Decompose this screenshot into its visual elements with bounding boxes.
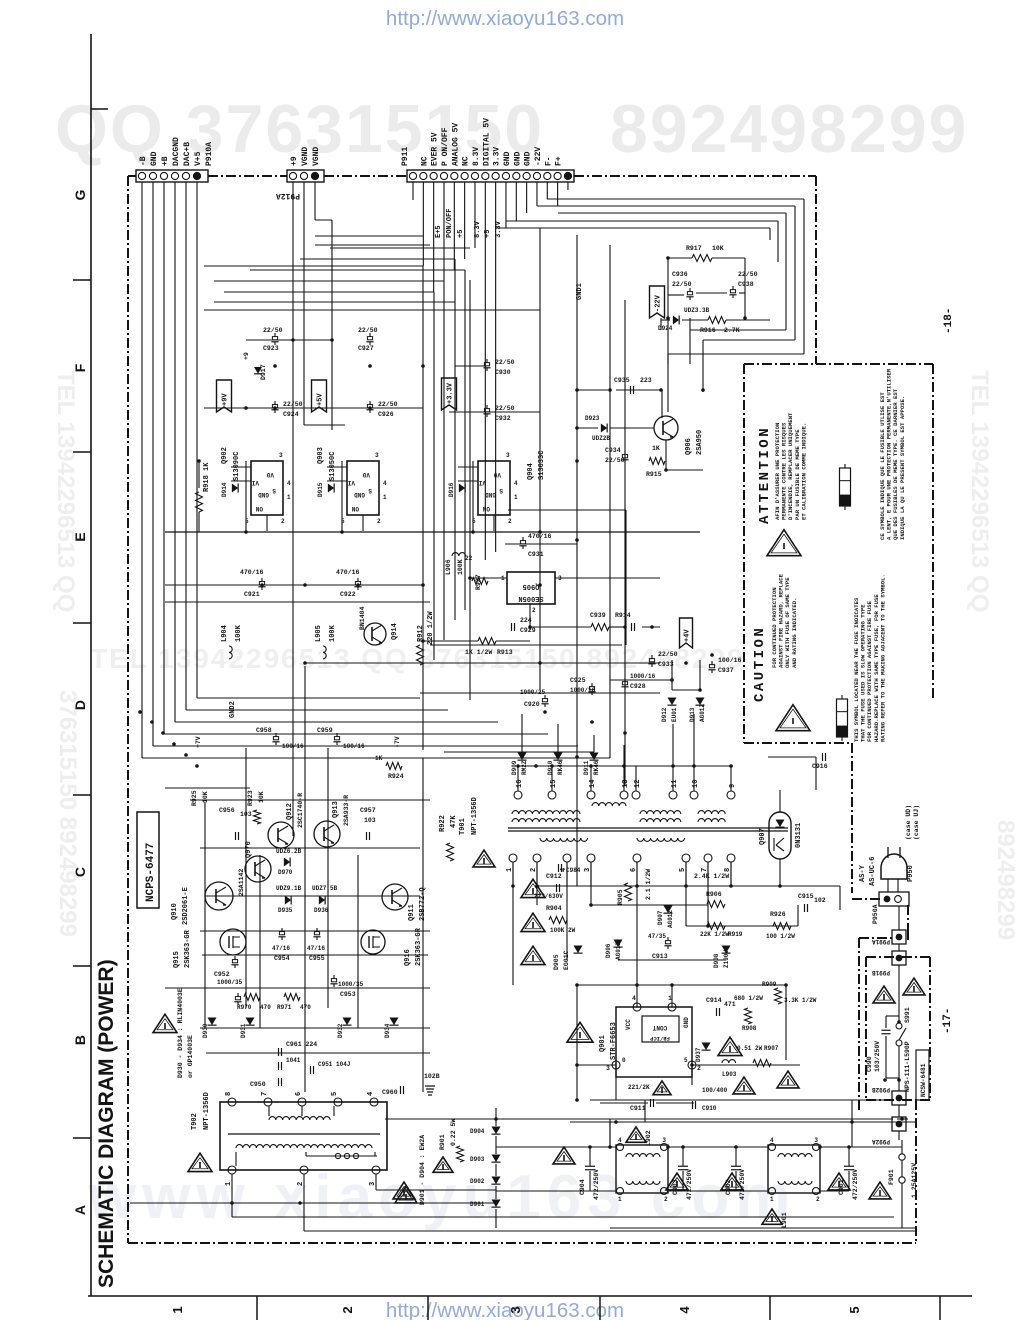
svg-text:NPT-1356D: NPT-1356D xyxy=(471,797,479,835)
svg-text:+9: +9 xyxy=(243,352,250,360)
svg-text:3: 3 xyxy=(279,452,283,459)
svg-text:V+5: V+5 xyxy=(194,151,203,166)
svg-text:C932: C932 xyxy=(495,415,511,422)
svg-text:100K: 100K xyxy=(457,559,464,575)
svg-text:G: G xyxy=(72,189,88,200)
svg-text:+5V: +5V xyxy=(317,393,325,406)
svg-text:22/50: 22/50 xyxy=(495,359,515,366)
svg-text:2: 2 xyxy=(281,518,285,525)
svg-text:470: 470 xyxy=(260,1004,271,1011)
svg-text:AND RATING INDICATED.: AND RATING INDICATED. xyxy=(791,598,798,669)
svg-text:100K: 100K xyxy=(235,624,243,642)
svg-text:+7V: +7V xyxy=(195,736,202,748)
svg-text:D912: D912 xyxy=(661,707,668,722)
svg-text:STR-F6653: STR-F6653 xyxy=(610,1022,618,1060)
svg-text:100/16: 100/16 xyxy=(718,657,742,664)
svg-text:VGND: VGND xyxy=(301,147,310,166)
svg-text:CAUTION: CAUTION xyxy=(752,626,768,702)
svg-text:10K: 10K xyxy=(712,245,724,252)
svg-text:S13090C: S13090C xyxy=(233,452,241,481)
svg-text:P950: P950 xyxy=(907,865,915,882)
svg-text:+B: +B xyxy=(161,156,170,166)
svg-text:22/50: 22/50 xyxy=(283,401,303,408)
svg-text:C933: C933 xyxy=(658,661,674,668)
svg-text:16: 16 xyxy=(516,780,524,788)
svg-text:Q905: Q905 xyxy=(523,582,540,590)
svg-text:4: 4 xyxy=(677,1306,692,1314)
svg-text:47/35: 47/35 xyxy=(648,933,666,940)
svg-text:3: 3 xyxy=(506,452,510,459)
svg-text:C930: C930 xyxy=(495,369,511,376)
svg-text:C911: C911 xyxy=(630,1105,646,1112)
svg-text:C934: C934 xyxy=(605,447,621,454)
svg-text:D: D xyxy=(72,700,88,710)
svg-text:R916: R916 xyxy=(700,327,716,334)
svg-text:C954: C954 xyxy=(274,955,290,962)
svg-text:UDZ7.5B: UDZ7.5B xyxy=(312,885,338,892)
svg-text:D916: D916 xyxy=(448,482,455,497)
svg-text:GND: GND xyxy=(485,491,496,498)
svg-text:C921: C921 xyxy=(244,591,260,598)
svg-text:4: 4 xyxy=(618,1137,622,1144)
svg-text:D970: D970 xyxy=(278,869,293,876)
svg-text:Q914: Q914 xyxy=(391,623,399,640)
svg-text:D910: D910 xyxy=(547,760,554,775)
svg-text:C936: C936 xyxy=(672,271,688,278)
svg-text:2SC1740-R: 2SC1740-R xyxy=(297,793,304,828)
svg-text:0.22 5W: 0.22 5W xyxy=(450,1119,457,1146)
svg-text:R908: R908 xyxy=(742,1025,757,1032)
svg-text:Q902: Q902 xyxy=(221,447,229,464)
svg-text:C990: C990 xyxy=(866,1056,873,1072)
svg-text:1000/35: 1000/35 xyxy=(217,979,243,986)
svg-text:-22V: -22V xyxy=(655,294,663,312)
svg-text:(case UD): (case UD) xyxy=(905,805,912,840)
svg-text:B: B xyxy=(72,1035,88,1045)
svg-text:C923: C923 xyxy=(263,345,279,352)
svg-text:+4V: +4V xyxy=(684,629,692,642)
svg-text:472/250V: 472/250V xyxy=(686,1169,693,1200)
svg-text:D923: D923 xyxy=(585,415,600,422)
svg-text:100K 2W: 100K 2W xyxy=(550,927,576,934)
svg-text:Q903: Q903 xyxy=(317,447,325,464)
svg-text:P ON/OFF: P ON/OFF xyxy=(441,127,450,166)
svg-text:47K: 47K xyxy=(450,815,458,828)
svg-text:S13050C: S13050C xyxy=(329,452,337,481)
svg-text:P910A: P910A xyxy=(205,142,214,166)
svg-text:P950A: P950A xyxy=(872,904,879,924)
svg-text:472/250V: 472/250V xyxy=(593,1169,600,1200)
svg-text:C952: C952 xyxy=(214,971,230,978)
svg-text:F+: F+ xyxy=(555,156,564,166)
svg-text:471: 471 xyxy=(724,1001,736,1008)
svg-text:NC: NC xyxy=(420,156,429,166)
svg-text:1: 1 xyxy=(514,494,518,501)
svg-text:T902: T902 xyxy=(191,1113,199,1130)
svg-text:3.3K 1/2W: 3.3K 1/2W xyxy=(784,997,817,1004)
svg-text:EU01: EU01 xyxy=(671,707,678,722)
svg-text:+5: +5 xyxy=(457,230,465,238)
svg-text:22/50: 22/50 xyxy=(605,457,625,464)
svg-text:C915: C915 xyxy=(798,893,814,900)
svg-text:CONT: CONT xyxy=(652,1024,667,1031)
svg-text:Z100V: Z100V xyxy=(723,950,730,968)
svg-text:3: 3 xyxy=(814,1137,818,1144)
svg-text:C922: C922 xyxy=(340,591,356,598)
svg-text:S13033C: S13033C xyxy=(538,451,546,480)
svg-text:D909: D909 xyxy=(511,760,518,775)
svg-text:12: 12 xyxy=(634,780,642,788)
svg-text:R919: R919 xyxy=(728,931,743,938)
svg-text:GND: GND xyxy=(513,151,522,166)
svg-text:C939: C939 xyxy=(590,612,606,619)
svg-text:22K 1/2W: 22K 1/2W xyxy=(700,931,729,938)
svg-text:C956: C956 xyxy=(219,807,235,814)
svg-text:223: 223 xyxy=(640,377,652,384)
svg-text:R922: R922 xyxy=(439,815,447,832)
svg-text:P911: P911 xyxy=(401,147,410,166)
svg-text:RM2Z: RM2Z xyxy=(521,760,528,775)
svg-text:1000/16: 1000/16 xyxy=(570,687,596,694)
svg-text:C927: C927 xyxy=(358,345,374,352)
svg-text:5: 5 xyxy=(331,1092,339,1096)
svg-text:D931: D931 xyxy=(240,1023,247,1038)
svg-text:C912: C912 xyxy=(546,873,562,880)
svg-text:RATING REFER TO THE MAKING ADJ: RATING REFER TO THE MAKING ADJACENT TO T… xyxy=(879,574,886,742)
svg-text:D901 - D904 : EW2A: D901 - D904 : EW2A xyxy=(419,1135,426,1205)
svg-text:D906: D906 xyxy=(605,943,612,958)
svg-text:C935: C935 xyxy=(614,377,630,384)
svg-text:Q910: Q910 xyxy=(171,903,179,920)
svg-text:ON: ON xyxy=(351,505,359,512)
svg-text:SCHEMATIC DIAGRAM (POWER): SCHEMATIC DIAGRAM (POWER) xyxy=(95,959,118,1288)
svg-text:22/50: 22/50 xyxy=(672,281,692,288)
svg-text:4: 4 xyxy=(383,480,387,487)
svg-text:QQ 376315150: QQ 376315150 xyxy=(55,91,544,167)
svg-text:P991A: P991A xyxy=(872,938,890,945)
svg-text:2SA1142: 2SA1142 xyxy=(238,869,245,896)
svg-text:ON: ON xyxy=(255,505,263,512)
svg-text:0.51 2W: 0.51 2W xyxy=(737,1045,763,1052)
svg-text:103/250V: 103/250V xyxy=(874,1041,881,1072)
svg-text:2.1 1/2W: 2.1 1/2W xyxy=(645,869,652,900)
svg-text:http://www.xiaoyu163.com: http://www.xiaoyu163.com xyxy=(386,7,624,30)
svg-text:Q901: Q901 xyxy=(599,1035,607,1052)
svg-text:2SD2061-E: 2SD2061-E xyxy=(182,887,190,925)
svg-text:2SK363-GR: 2SK363-GR xyxy=(415,927,423,966)
svg-text:F901: F901 xyxy=(888,1169,895,1185)
svg-text:1041: 1041 xyxy=(286,1057,301,1064)
svg-text:4: 4 xyxy=(770,1137,774,1144)
svg-text:11: 11 xyxy=(671,780,679,788)
svg-text:ATTENTION: ATTENTION xyxy=(757,426,773,524)
svg-text:C959: C959 xyxy=(317,727,333,734)
svg-text:+3.3V: +3.3V xyxy=(447,382,455,404)
svg-text:2: 2 xyxy=(816,1196,820,1203)
svg-text:376315150 892498299: 376315150 892498299 xyxy=(54,690,81,937)
svg-text:47/16: 47/16 xyxy=(272,945,290,952)
svg-text:NCSW-6481: NCSW-6481 xyxy=(920,1063,927,1097)
svg-text:47/16: 47/16 xyxy=(307,945,325,952)
svg-text:8: 8 xyxy=(225,1092,233,1096)
svg-text:1: 1 xyxy=(668,995,672,1002)
svg-text:R915: R915 xyxy=(646,471,662,478)
svg-text:TEL 13942296513 QQ: TEL 13942296513 QQ xyxy=(966,370,993,612)
svg-text:UDZ6.2B: UDZ6.2B xyxy=(276,848,302,855)
svg-text:P912A: P912A xyxy=(276,191,300,200)
svg-text:VGND: VGND xyxy=(312,147,321,166)
svg-text:R917: R917 xyxy=(686,245,702,252)
svg-text:Q916: Q916 xyxy=(404,949,412,966)
svg-text:1: 1 xyxy=(383,494,387,501)
svg-text:UDZ3.3B: UDZ3.3B xyxy=(684,307,710,314)
svg-text:GND2: GND2 xyxy=(229,701,237,718)
svg-text:4: 4 xyxy=(514,480,518,487)
svg-text:1K: 1K xyxy=(652,445,660,452)
svg-text:R907: R907 xyxy=(764,1045,779,1052)
svg-text:D904: D904 xyxy=(470,1128,485,1135)
svg-text:R925: R925 xyxy=(191,790,198,806)
svg-text:C904: C904 xyxy=(579,1179,586,1195)
svg-text:C916: C916 xyxy=(812,763,828,770)
svg-text:-22V: -22V xyxy=(534,147,543,166)
svg-text:D917: D917 xyxy=(260,364,267,380)
svg-text:1: 1 xyxy=(170,1306,185,1313)
svg-text:VI: VI xyxy=(251,479,259,486)
svg-text:2.7K: 2.7K xyxy=(724,327,740,334)
svg-text:100/16: 100/16 xyxy=(282,743,304,750)
svg-text:L905: L905 xyxy=(315,625,323,642)
svg-text:1: 1 xyxy=(618,1196,622,1203)
svg-text:1000/35: 1000/35 xyxy=(338,981,364,988)
svg-text:AS-Y: AS-Y xyxy=(859,864,867,882)
svg-text:EVER 5V: EVER 5V xyxy=(431,132,440,166)
svg-text:V0: V0 xyxy=(493,471,501,478)
svg-text:R914: R914 xyxy=(615,612,631,619)
svg-text:Q911: Q911 xyxy=(408,904,416,921)
svg-text:E: E xyxy=(72,532,88,541)
svg-text:D935: D935 xyxy=(278,907,293,914)
svg-text:FB/ICP: FB/ICP xyxy=(649,1035,670,1042)
svg-text:2SK363-GR: 2SK363-GR xyxy=(184,929,192,968)
svg-text:0: 0 xyxy=(622,1057,626,1064)
svg-text:C961 224: C961 224 xyxy=(286,1041,317,1048)
svg-text:Q915: Q915 xyxy=(173,951,181,968)
svg-text:GND: GND xyxy=(150,151,159,166)
svg-text:103: 103 xyxy=(364,817,376,824)
svg-text:BN1404: BN1404 xyxy=(359,606,366,630)
svg-text:22/50: 22/50 xyxy=(378,401,398,408)
svg-text:+9: +9 xyxy=(290,156,299,166)
svg-text:D930 - D934 : RLIN4003E: D930 - D934 : RLIN4003E xyxy=(177,988,184,1078)
svg-text:RK46: RK46 xyxy=(593,760,600,775)
svg-text:D936: D936 xyxy=(314,907,329,914)
svg-text:GND: GND xyxy=(683,1017,690,1028)
svg-text:L904: L904 xyxy=(221,625,229,642)
svg-text:4: 4 xyxy=(367,1092,375,1096)
svg-text:D914: D914 xyxy=(221,482,228,497)
svg-text:R924: R924 xyxy=(388,773,404,780)
svg-text:VI: VI xyxy=(478,479,486,486)
svg-text:ANALOG 5V: ANALOG 5V xyxy=(451,123,460,166)
svg-text:Q913: Q913 xyxy=(332,801,340,818)
svg-text:-18-: -18- xyxy=(943,308,955,334)
svg-text:470: 470 xyxy=(300,1004,311,1011)
svg-text:PON/OFF: PON/OFF xyxy=(446,209,454,238)
svg-text:R913: R913 xyxy=(497,649,513,656)
svg-text:1.25A125V: 1.25A125V xyxy=(911,1163,918,1198)
svg-text:GND: GND xyxy=(503,151,512,166)
svg-text:C951 104J: C951 104J xyxy=(318,1061,350,1068)
svg-text:D915: D915 xyxy=(317,482,324,497)
svg-text:5: 5 xyxy=(684,1057,688,1064)
svg-text:NCPS-6477: NCPS-6477 xyxy=(145,843,157,902)
svg-text:V0: V0 xyxy=(362,471,370,478)
svg-text:DAC+B: DAC+B xyxy=(183,142,192,166)
svg-text:DACGND: DACGND xyxy=(172,137,181,166)
svg-text:1000/16: 1000/16 xyxy=(630,673,656,680)
svg-text:Q906: Q906 xyxy=(685,438,693,455)
svg-text:C925: C925 xyxy=(570,677,586,684)
svg-text:RK46: RK46 xyxy=(557,760,564,775)
svg-text:A: A xyxy=(72,1205,88,1215)
svg-text:C960: C960 xyxy=(382,1089,398,1096)
svg-text:or GP14003E: or GP14003E xyxy=(187,1035,194,1078)
svg-text:R926: R926 xyxy=(770,911,786,918)
svg-text:1000/25: 1000/25 xyxy=(520,689,546,696)
svg-text:13: 13 xyxy=(622,780,630,788)
svg-text:C950: C950 xyxy=(250,1081,266,1088)
svg-text:C957: C957 xyxy=(360,807,376,814)
svg-text:100 1/2W: 100 1/2W xyxy=(766,933,795,940)
svg-text:3: 3 xyxy=(375,452,379,459)
svg-text:680 1/2W: 680 1/2W xyxy=(734,995,763,1002)
svg-text:R918 1K: R918 1K xyxy=(203,462,211,492)
svg-text:(case UJ): (case UJ) xyxy=(913,805,920,840)
svg-text:10: 10 xyxy=(692,780,700,788)
svg-text:15: 15 xyxy=(550,780,558,788)
svg-text:C: C xyxy=(72,867,88,877)
svg-text:AG01Z: AG01Z xyxy=(667,910,674,928)
svg-text:2: 2 xyxy=(532,607,536,614)
svg-text:P992B: P992B xyxy=(872,1086,890,1093)
svg-text:S991: S991 xyxy=(904,1007,911,1023)
svg-text:C924: C924 xyxy=(283,411,299,418)
svg-text:1K 1/2W: 1K 1/2W xyxy=(465,649,492,656)
svg-text:NPT-1356D: NPT-1356D xyxy=(203,1092,211,1130)
svg-text:C913: C913 xyxy=(652,953,668,960)
svg-text:102B: 102B xyxy=(424,1073,440,1080)
svg-text:D911: D911 xyxy=(583,760,590,775)
svg-text:D901: D901 xyxy=(470,1201,485,1208)
svg-text:2: 2 xyxy=(508,518,512,525)
svg-text:10K: 10K xyxy=(202,791,209,803)
svg-text:2: 2 xyxy=(664,1196,668,1203)
svg-text:VI: VI xyxy=(347,479,355,486)
svg-text:Q904: Q904 xyxy=(527,463,535,480)
svg-text:22: 22 xyxy=(465,555,473,562)
svg-text:1K: 1K xyxy=(375,755,383,762)
svg-text:2SA933-R: 2SA933-R xyxy=(343,795,350,826)
svg-text:R905: R905 xyxy=(617,889,624,905)
svg-text:2.4K 1/2W: 2.4K 1/2W xyxy=(694,873,729,880)
svg-text:224: 224 xyxy=(520,617,532,624)
svg-text:L906: L906 xyxy=(445,559,452,575)
svg-text:5: 5 xyxy=(847,1306,862,1313)
svg-text:D905: D905 xyxy=(553,954,560,970)
svg-text:D937: D937 xyxy=(695,1047,702,1062)
svg-text:C984: C984 xyxy=(566,867,581,874)
svg-text:L901: L901 xyxy=(781,1212,788,1228)
svg-text:-B: -B xyxy=(139,156,148,166)
svg-text:Q912: Q912 xyxy=(286,803,294,820)
svg-text:4: 4 xyxy=(632,995,636,1002)
svg-text:R901: R901 xyxy=(439,1134,446,1150)
svg-text:221/2K: 221/2K xyxy=(628,1084,650,1091)
svg-text:4: 4 xyxy=(287,480,291,487)
svg-text:E+5: E+5 xyxy=(435,225,443,238)
svg-text:DIGITAL 5V: DIGITAL 5V xyxy=(482,118,491,166)
svg-text:C926: C926 xyxy=(378,411,394,418)
svg-text:R904: R904 xyxy=(546,905,562,912)
svg-text:ET CALIBRATION COMME INDIQUE.: ET CALIBRATION COMME INDIQUE. xyxy=(800,423,807,520)
svg-text:-7V: -7V xyxy=(394,736,401,748)
svg-text:C920: C920 xyxy=(524,701,540,708)
svg-text:22/50: 22/50 xyxy=(738,271,758,278)
svg-text:+9V: +9V xyxy=(222,393,230,406)
svg-text:C937: C937 xyxy=(718,667,734,674)
svg-text:F: F xyxy=(72,363,88,372)
svg-text:D924: D924 xyxy=(658,325,673,332)
svg-text:VCC: VCC xyxy=(625,1019,632,1030)
svg-text:10K: 10K xyxy=(258,791,265,803)
svg-text:6: 6 xyxy=(295,1092,303,1096)
svg-text:P991B: P991B xyxy=(872,969,890,976)
svg-text:F-: F- xyxy=(544,156,553,166)
svg-text:3.3V: 3.3V xyxy=(493,147,502,166)
svg-text:D908: D908 xyxy=(713,953,720,968)
svg-text:SE005N: SE005N xyxy=(518,594,543,602)
svg-text:22/50: 22/50 xyxy=(658,651,678,658)
svg-text:100K: 100K xyxy=(329,624,337,642)
svg-text:Q907: Q907 xyxy=(759,828,767,845)
svg-text:1: 1 xyxy=(287,494,291,501)
svg-text:3: 3 xyxy=(606,1065,610,1072)
svg-text:9: 9 xyxy=(729,784,737,788)
svg-text:3: 3 xyxy=(662,1137,666,1144)
svg-text:ON: ON xyxy=(482,505,490,512)
svg-text:R923: R923 xyxy=(247,790,254,806)
svg-text:22/50: 22/50 xyxy=(358,327,378,334)
svg-text:22/50: 22/50 xyxy=(263,327,283,334)
svg-text:C928: C928 xyxy=(630,683,646,690)
svg-text:AG01Z: AG01Z xyxy=(699,704,706,722)
svg-text:L902: L902 xyxy=(645,1130,652,1146)
svg-text:S: S xyxy=(499,487,503,494)
svg-text:S: S xyxy=(272,487,276,494)
svg-text:223/630V: 223/630V xyxy=(534,893,563,900)
svg-text:L903: L903 xyxy=(722,1071,737,1078)
svg-text:220 1/2W: 220 1/2W xyxy=(427,611,435,645)
svg-text:GND: GND xyxy=(524,151,533,166)
svg-text:470/16: 470/16 xyxy=(336,569,360,576)
svg-text:R970: R970 xyxy=(237,1004,252,1011)
svg-text:P992A: P992A xyxy=(872,1138,890,1145)
svg-text:D913: D913 xyxy=(689,707,696,722)
svg-text:D903: D903 xyxy=(470,1156,485,1163)
svg-text:C910: C910 xyxy=(702,1105,717,1112)
svg-text:UDZ2B: UDZ2B xyxy=(592,435,610,442)
